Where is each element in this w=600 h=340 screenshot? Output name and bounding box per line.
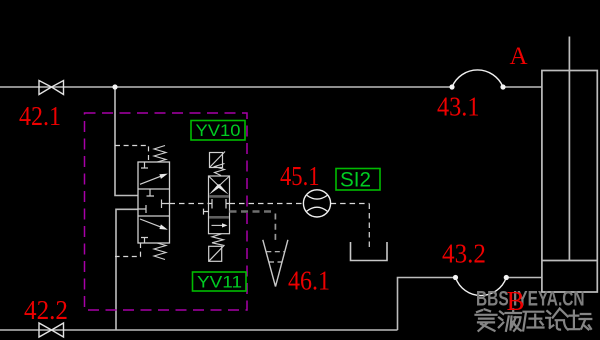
svg-text:42.2: 42.2	[24, 295, 68, 325]
cylinder rod	[568, 37, 570, 261]
cylinder piston	[542, 260, 597, 262]
bridge 43.2 end dots	[453, 275, 458, 280]
label box YV11	[193, 272, 247, 291]
svg-text:SI2: SI2	[340, 169, 371, 192]
solenoid valve bottom box arrow	[212, 224, 224, 226]
svg-text:YV10: YV10	[196, 121, 241, 140]
solenoid valve bottom spring	[212, 234, 224, 246]
reducing valve section boundaries	[138, 189, 170, 216]
solenoid valve section separator band 1	[209, 195, 229, 198]
wire supply drop from junction to valve P port	[115, 87, 139, 196]
watermark chinese 论	[546, 309, 568, 330]
shutoff valve 42.2	[39, 323, 64, 337]
reducing valve section1 arrow	[140, 176, 163, 185]
watermark chinese 压	[523, 312, 543, 331]
drain line 2 vertical to funnel	[274, 214, 276, 241]
wire top supply line	[0, 86, 452, 88]
svg-text:B: B	[507, 286, 525, 316]
drain funnel 46.1	[263, 240, 288, 287]
reducing valve bottom spring	[154, 243, 166, 260]
cylinder body	[542, 71, 597, 293]
solenoid valve blocked port outside left	[204, 209, 209, 215]
solenoid valve YV10 coil box	[210, 153, 223, 168]
reducing valve center stub top	[147, 189, 155, 196]
solenoid valve positions outer box	[209, 176, 230, 234]
solenoid valve section separator band 2	[209, 216, 229, 219]
svg-text:42.1: 42.1	[19, 101, 61, 131]
drain line 2 (gray heavy dashes)	[230, 210, 276, 213]
pilot line from reducing valve bottom	[115, 243, 141, 257]
shutoff valve 42.1	[39, 81, 64, 95]
solenoid valve YV11 coil box	[209, 246, 222, 261]
pilot signal line 1 (valve output to gauge and tank)	[170, 204, 370, 248]
test point bridge 43.1	[452, 70, 503, 87]
reducing valve section3 blocked stub	[141, 238, 148, 244]
reducing valve section1 blocked stub	[141, 162, 148, 168]
watermark chinese 坛	[569, 311, 591, 330]
gauge 45.1 circle	[303, 190, 330, 217]
bridge 43.1 end dots	[449, 84, 454, 89]
reducing valve center stub right	[162, 200, 170, 209]
pilot line to reducing valve top	[115, 146, 149, 163]
svg-text:43.2: 43.2	[442, 239, 486, 269]
svg-text:45.1: 45.1	[280, 161, 320, 191]
manifold enclosure (magenta dashed)	[85, 113, 248, 310]
wire B-port line to cylinder	[506, 277, 542, 279]
reducing valve top spring	[154, 146, 166, 163]
watermark chinese 液	[499, 309, 521, 331]
test point bridge 43.2	[456, 278, 507, 296]
wire riser from tank line to B line	[398, 278, 456, 331]
watermark chinese 爱	[476, 309, 497, 331]
solenoid valve center box left tick	[209, 199, 212, 209]
funnel dashed chords	[266, 252, 285, 262]
junction node dot	[112, 84, 117, 89]
label box SI2	[336, 169, 380, 191]
svg-text:YV11: YV11	[197, 273, 242, 292]
label box YV10	[191, 121, 245, 141]
wire A-port line to cylinder	[503, 86, 542, 88]
solenoid valve top spring	[215, 164, 225, 176]
gauge inner arcs	[307, 195, 328, 211]
reducing valve center stub left	[138, 205, 146, 213]
tank symbol	[351, 242, 388, 261]
reducing valve V1 body	[138, 162, 170, 243]
svg-text:BBS.IYEYA.CN: BBS.IYEYA.CN	[476, 286, 585, 310]
wire bottom tank line	[0, 329, 398, 331]
svg-text:46.1: 46.1	[288, 266, 330, 296]
svg-text:A: A	[510, 43, 528, 70]
reducing valve section3 arrow	[140, 219, 163, 228]
wire valve T port drop to tank line	[116, 209, 139, 330]
svg-text:43.1: 43.1	[437, 92, 480, 122]
solenoid valve center box right tick	[226, 199, 230, 209]
solenoid valve X position crossing	[209, 177, 229, 187]
